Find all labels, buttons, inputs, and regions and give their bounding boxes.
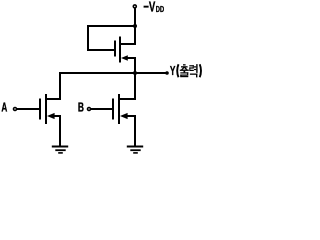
svg-text:DD: DD bbox=[156, 6, 164, 14]
svg-text:B: B bbox=[78, 101, 84, 115]
svg-text:Y: Y bbox=[170, 64, 176, 78]
svg-text:−V: −V bbox=[143, 0, 156, 15]
svg-text:A: A bbox=[1, 101, 7, 115]
